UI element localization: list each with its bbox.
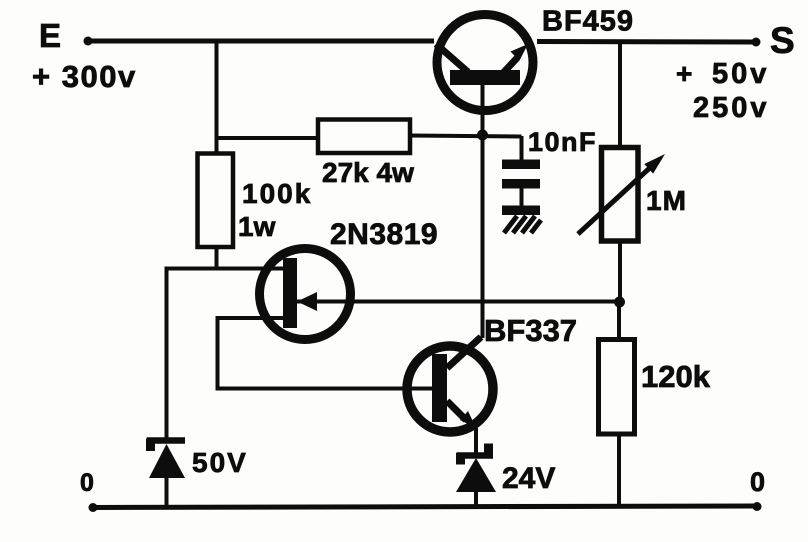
svg-text:50v: 50v (712, 58, 769, 90)
svg-text:0: 0 (750, 467, 765, 497)
svg-text:27k 4w: 27k 4w (322, 157, 414, 188)
svg-text:250v: 250v (693, 92, 770, 124)
svg-text:+ 300v: + 300v (32, 59, 137, 94)
svg-text:50V: 50V (192, 447, 248, 478)
svg-text:120k: 120k (641, 359, 711, 394)
svg-text:24V: 24V (502, 462, 555, 495)
svg-text:E: E (39, 17, 61, 54)
svg-text:S: S (770, 20, 795, 61)
svg-text:1M: 1M (646, 185, 687, 216)
svg-text:BF459: BF459 (542, 6, 634, 38)
svg-text:1w: 1w (238, 211, 276, 242)
svg-text:+: + (676, 58, 692, 89)
svg-text:100k: 100k (242, 178, 312, 209)
svg-text:0: 0 (80, 469, 94, 497)
svg-text:BF337: BF337 (484, 313, 577, 348)
svg-text:10nF: 10nF (528, 127, 597, 157)
svg-text:2N3819: 2N3819 (330, 218, 438, 251)
